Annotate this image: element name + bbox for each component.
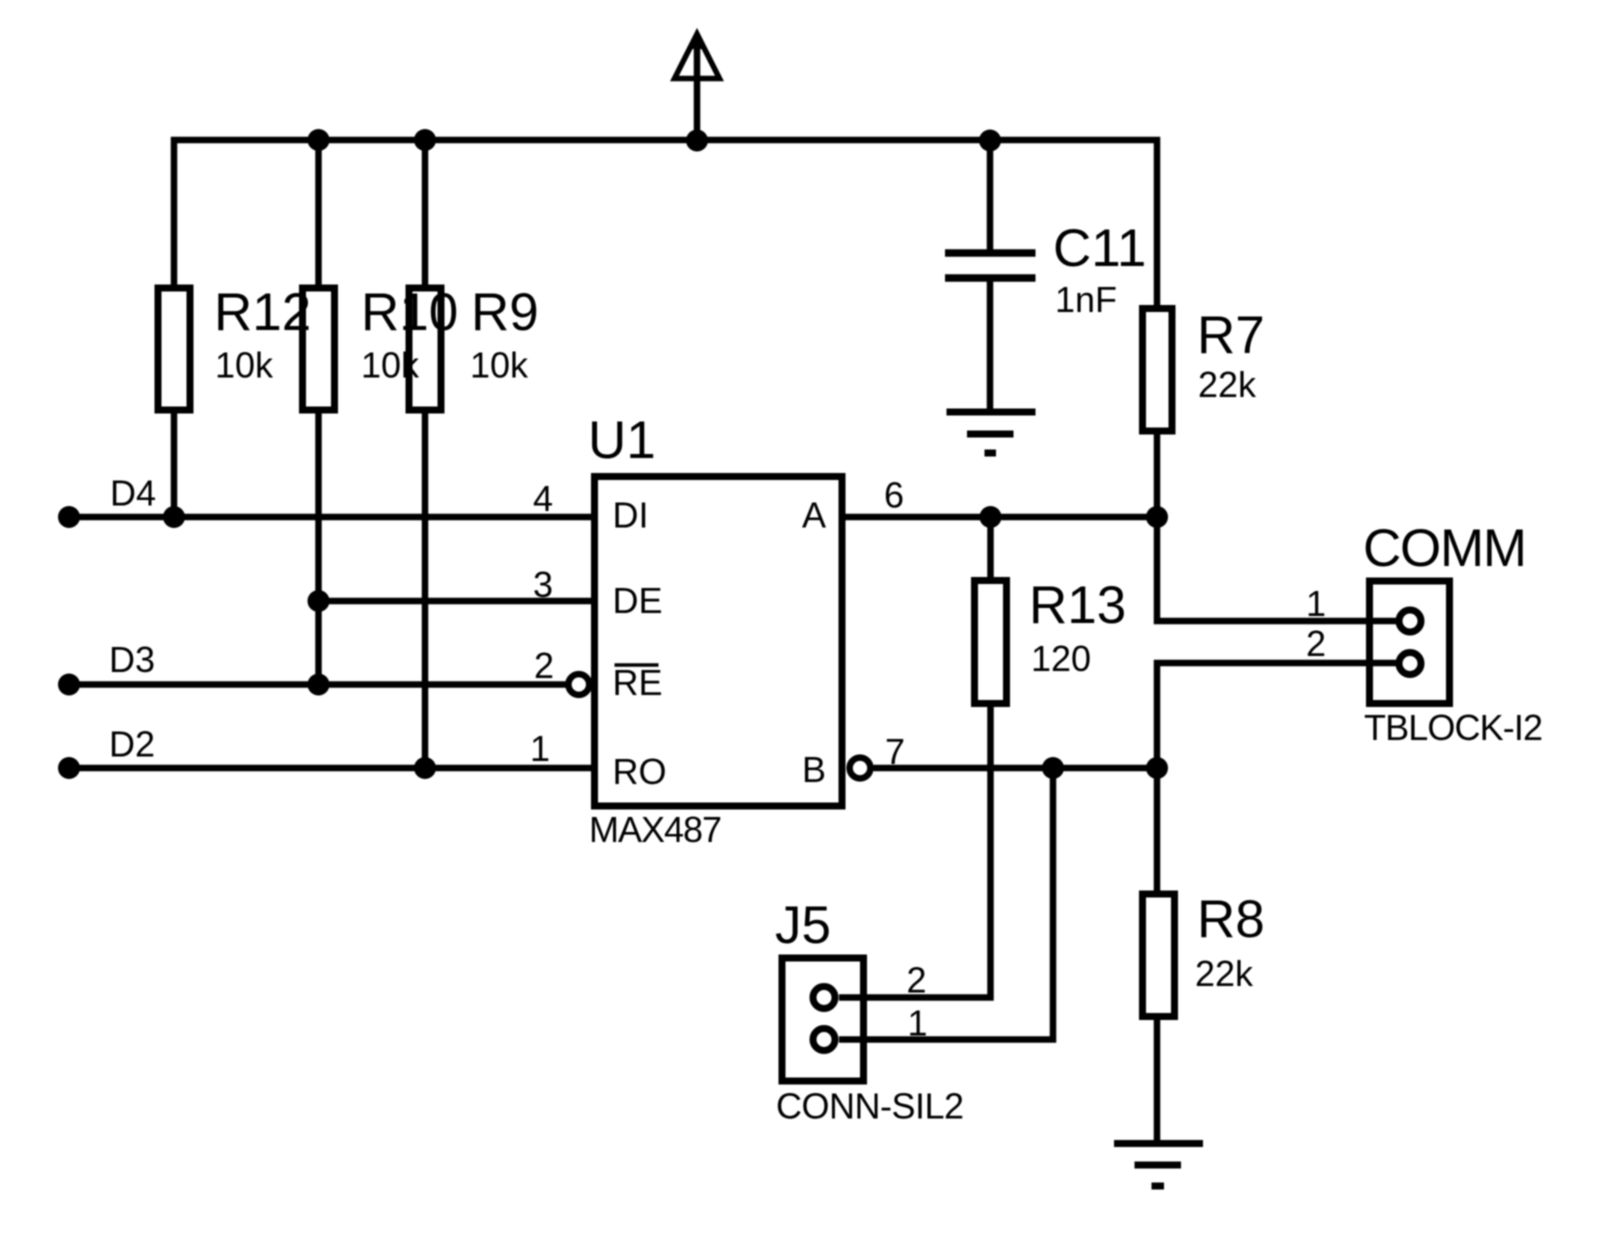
wire R10 down to D3 line <box>315 410 322 685</box>
node D3 terminal <box>58 674 80 696</box>
wire R12 to D4 line <box>171 410 178 517</box>
svg-text:TBLOCK-I2: TBLOCK-I2 <box>1364 707 1543 748</box>
svg-text:22k: 22k <box>1195 953 1254 994</box>
node junction D2/R9 <box>414 757 436 779</box>
resistor R12 <box>158 288 190 410</box>
node junction D3/R10 <box>308 674 330 696</box>
svg-text:MAX487: MAX487 <box>589 809 722 850</box>
ground under C11 <box>947 412 1036 453</box>
svg-text:B: B <box>802 749 826 790</box>
pin circle J5 1 (bottom) <box>813 1029 835 1051</box>
svg-text:D4: D4 <box>110 473 156 514</box>
resistor R8 <box>1143 894 1175 1017</box>
svg-text:2: 2 <box>907 960 927 1001</box>
pin circle COMM 2 <box>1399 653 1421 675</box>
svg-text:R12: R12 <box>214 283 311 342</box>
svg-text:2: 2 <box>534 645 554 686</box>
node junction B/R8 <box>1146 757 1168 779</box>
svg-text:R13: R13 <box>1029 576 1126 635</box>
svg-text:1: 1 <box>1306 583 1326 624</box>
wire D3 to pin RE <box>69 681 566 688</box>
connector J5 CONN-SIL2 <box>782 958 864 1081</box>
wire VCC top rail <box>174 140 1157 308</box>
wire R13 down to J5 pin2 <box>839 704 991 998</box>
resistor R7 <box>1143 309 1173 432</box>
node junction A/R7 <box>1146 506 1168 528</box>
svg-text:CONN-SIL2: CONN-SIL2 <box>776 1086 964 1127</box>
svg-text:22k: 22k <box>1198 364 1257 405</box>
capacitor C11 <box>945 253 1036 278</box>
pin circle COMM 1 <box>1399 610 1421 632</box>
wire C11 to ground <box>987 278 994 412</box>
wire pin B net <box>874 765 1158 772</box>
node D4 terminal <box>58 506 80 528</box>
svg-text:RO: RO <box>613 751 667 792</box>
svg-text:DE: DE <box>613 580 663 621</box>
wire R10 top <box>315 140 322 288</box>
node junction on rail at power symbol <box>686 130 708 152</box>
svg-text:6: 6 <box>884 475 904 516</box>
resistor R9 <box>409 288 441 410</box>
svg-text:R9: R9 <box>471 283 539 342</box>
svg-text:D2: D2 <box>109 724 155 765</box>
svg-text:C11: C11 <box>1053 219 1146 278</box>
node junction on rail at R10 <box>308 129 330 151</box>
inversion circle on B pin <box>850 758 871 779</box>
wire R8 to ground <box>1154 1017 1161 1144</box>
node junction DE/R10 <box>308 590 330 612</box>
wire D4 to pin DI <box>69 514 594 521</box>
wire DE pin 3 <box>319 598 595 605</box>
resistor R10 <box>303 288 335 410</box>
node junction D4/R12 <box>163 506 185 528</box>
svg-text:3: 3 <box>533 564 553 605</box>
svg-text:R8: R8 <box>1197 890 1265 949</box>
wire D2 to pin RO <box>69 765 594 772</box>
svg-text:1nF: 1nF <box>1055 279 1117 320</box>
svg-text:10k: 10k <box>470 345 529 386</box>
ground under R8 <box>1114 1144 1203 1187</box>
pin circle J5 2 (top) <box>813 987 835 1009</box>
resistor R13 <box>975 581 1007 704</box>
svg-text:1: 1 <box>530 728 550 769</box>
wire R7 to A line <box>1154 431 1161 517</box>
wire COMM pin2 to B <box>1157 663 1396 768</box>
wire R9 top <box>422 140 429 288</box>
op-amp U1 MAX487 box <box>595 477 843 807</box>
svg-text:COMM: COMM <box>1363 519 1527 578</box>
node junction on rail at R9 <box>414 129 436 151</box>
inversion circle on RE pin <box>568 674 589 695</box>
svg-text:U1: U1 <box>588 411 656 470</box>
svg-text:R7: R7 <box>1197 306 1265 365</box>
wire J5 pin1 to B junction <box>839 768 1053 1040</box>
svg-text:120: 120 <box>1031 638 1091 679</box>
wire B to R8 <box>1154 768 1161 894</box>
svg-text:2: 2 <box>1306 623 1326 664</box>
wire R13 top <box>987 517 994 581</box>
node D2 terminal <box>58 757 80 779</box>
node junction on rail at C11 <box>979 130 1001 152</box>
svg-text:4: 4 <box>533 478 553 519</box>
connector COMM TBLOCK-I2 <box>1370 581 1450 704</box>
wire R9 down to D2 line <box>422 410 429 768</box>
svg-text:D3: D3 <box>109 639 155 680</box>
node junction B/J5 <box>1042 757 1064 779</box>
svg-text:J5: J5 <box>775 896 831 955</box>
svg-text:7: 7 <box>885 731 905 772</box>
svg-text:A: A <box>802 495 826 536</box>
node junction A/R13 <box>980 506 1002 528</box>
svg-text:DI: DI <box>613 495 649 536</box>
power symbol VCC <box>675 31 720 142</box>
wire C11 top <box>987 140 994 253</box>
wire pin A net <box>841 514 1157 521</box>
svg-text:10k: 10k <box>215 345 274 386</box>
wire A to COMM pin1 <box>1157 517 1396 621</box>
svg-text:RE: RE <box>613 662 663 703</box>
